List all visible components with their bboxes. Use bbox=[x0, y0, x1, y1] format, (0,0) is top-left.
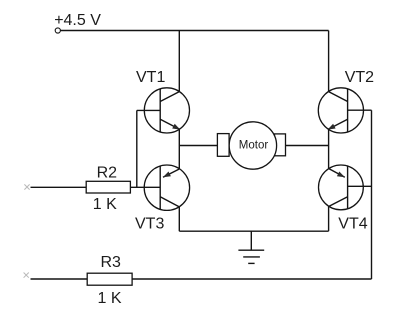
svg-text:VT1: VT1 bbox=[136, 69, 165, 86]
svg-text:R3: R3 bbox=[101, 254, 122, 271]
svg-text:+4.5 V: +4.5 V bbox=[54, 12, 101, 29]
svg-text:Motor: Motor bbox=[239, 140, 269, 152]
svg-text:VT3: VT3 bbox=[135, 215, 164, 232]
svg-text:VT2: VT2 bbox=[345, 69, 374, 86]
svg-text:R2: R2 bbox=[97, 165, 118, 182]
svg-text:1 K: 1 K bbox=[98, 290, 122, 307]
svg-text:1 K: 1 K bbox=[93, 196, 117, 213]
svg-text:VT4: VT4 bbox=[338, 215, 367, 232]
